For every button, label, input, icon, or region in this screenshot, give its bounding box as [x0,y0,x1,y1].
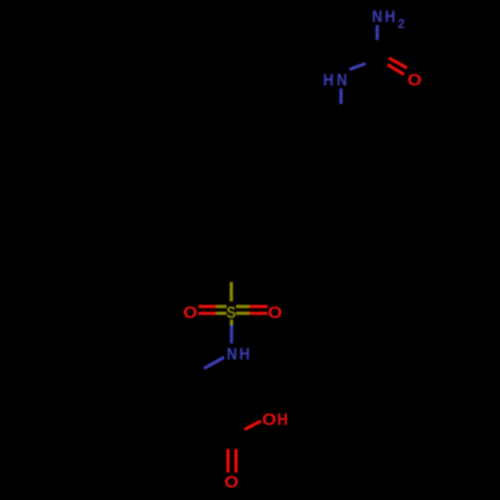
svg-text:O: O [224,474,238,492]
svg-text:H: H [385,8,396,26]
svg-text:N: N [337,71,347,89]
svg-text:H: H [323,71,334,89]
svg-text:O: O [408,71,422,89]
svg-text:O: O [262,411,276,429]
svg-text:H: H [239,345,250,363]
svg-text:N: N [372,8,382,26]
svg-text:O: O [183,304,197,322]
svg-text:H: H [277,411,288,429]
svg-text:O: O [268,304,282,322]
svg-text:N: N [227,345,237,363]
svg-text:2: 2 [398,17,405,31]
